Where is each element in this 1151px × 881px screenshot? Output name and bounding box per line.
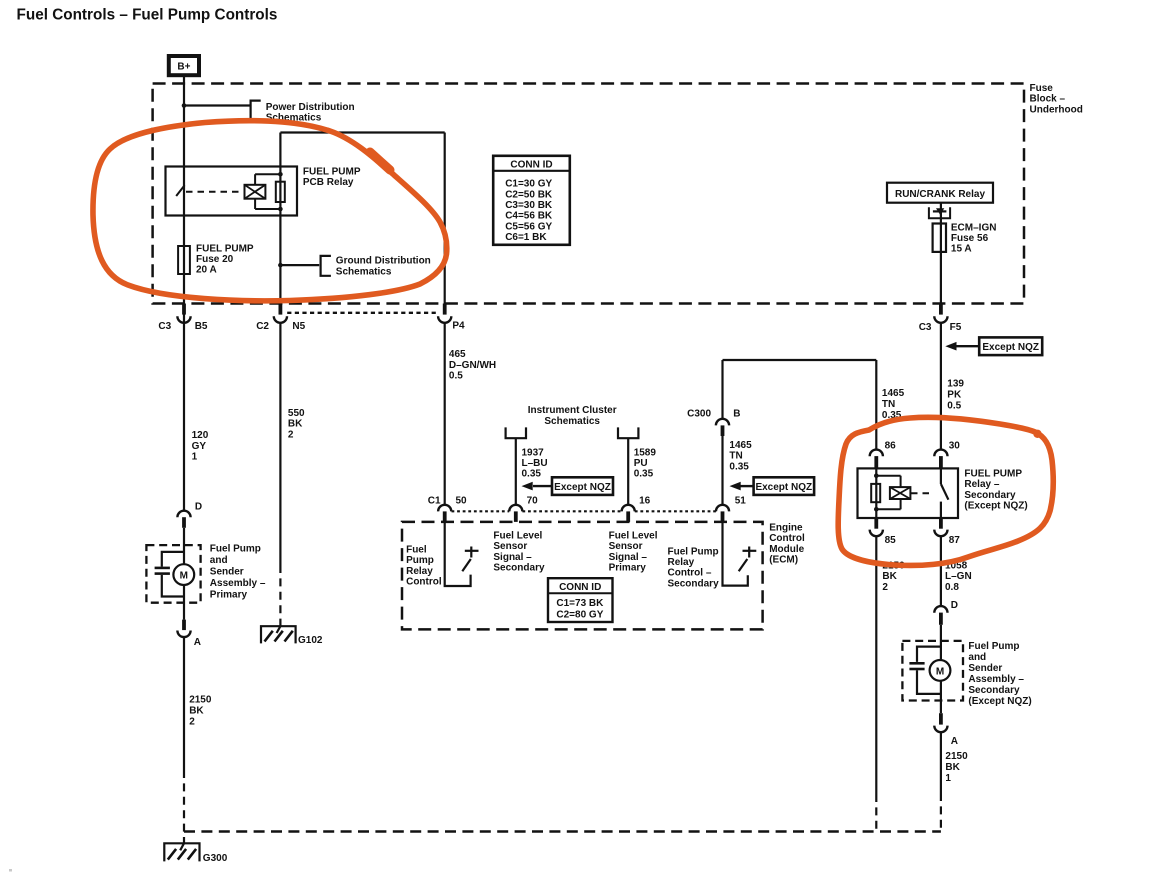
svg-text:85: 85 [885, 535, 897, 546]
svg-text:(Except NQZ): (Except NQZ) [968, 696, 1031, 707]
svg-text:BK: BK [882, 571, 897, 582]
svg-text:Fuel Level: Fuel Level [493, 530, 542, 541]
svg-text:Block –: Block – [1030, 94, 1066, 105]
svg-text:ECM–IGN: ECM–IGN [951, 223, 997, 234]
svg-text:Primary: Primary [210, 590, 248, 601]
svg-text:Signal –: Signal – [493, 552, 532, 563]
svg-text:Control: Control [406, 577, 442, 588]
svg-text:(Except NQZ): (Except NQZ) [964, 501, 1027, 512]
svg-text:1: 1 [192, 451, 198, 462]
svg-text:G300: G300 [203, 853, 228, 864]
svg-text:P4: P4 [452, 321, 465, 332]
svg-text:C5=56 GY: C5=56 GY [505, 221, 552, 232]
svg-text:Fuse: Fuse [1030, 83, 1054, 94]
svg-text:FUEL PUMP: FUEL PUMP [964, 468, 1022, 479]
svg-text:Secondary: Secondary [968, 685, 1020, 696]
svg-text:2: 2 [882, 582, 888, 593]
svg-text:Assembly –: Assembly – [210, 578, 266, 589]
svg-text:TN: TN [729, 451, 742, 462]
svg-text:A: A [194, 637, 201, 648]
svg-text:1589: 1589 [634, 447, 657, 458]
svg-text:C2=80 GY: C2=80 GY [556, 609, 603, 620]
svg-text:G102: G102 [298, 635, 323, 646]
svg-text:C2=50 BK: C2=50 BK [505, 189, 553, 200]
svg-text:PCB Relay: PCB Relay [303, 177, 354, 188]
svg-text:86: 86 [885, 440, 897, 451]
svg-text:BK: BK [945, 762, 960, 773]
svg-text:Except NQZ: Except NQZ [982, 342, 1039, 353]
svg-text:Schematics: Schematics [544, 416, 600, 427]
svg-text:0.5: 0.5 [449, 371, 463, 382]
svg-text:Pump: Pump [406, 555, 434, 566]
svg-text:B: B [733, 409, 740, 420]
svg-text:Assembly –: Assembly – [968, 674, 1024, 685]
svg-text:N5: N5 [292, 321, 305, 332]
svg-text:70: 70 [527, 496, 539, 507]
svg-text:Signal –: Signal – [609, 552, 648, 563]
svg-text:50: 50 [456, 496, 468, 507]
svg-text:BK: BK [189, 705, 204, 716]
svg-text:1465: 1465 [729, 440, 752, 451]
svg-text:51: 51 [735, 496, 747, 507]
svg-text:30: 30 [949, 440, 961, 451]
svg-text:0.8: 0.8 [945, 582, 959, 593]
svg-text:(ECM): (ECM) [769, 555, 798, 566]
svg-text:2: 2 [288, 429, 294, 440]
svg-text:Control: Control [769, 533, 805, 544]
svg-text:C1=30 GY: C1=30 GY [505, 179, 552, 190]
svg-text:PK: PK [947, 390, 962, 401]
svg-text:Sensor: Sensor [493, 541, 527, 552]
svg-text:TN: TN [882, 399, 895, 410]
svg-text:F5: F5 [950, 322, 962, 333]
svg-text:M: M [936, 666, 944, 677]
svg-text:Fuel Pump: Fuel Pump [668, 546, 719, 557]
svg-text:B5: B5 [195, 321, 208, 332]
svg-text:C3=30 BK: C3=30 BK [505, 200, 553, 211]
svg-text:0.35: 0.35 [729, 461, 749, 472]
svg-text:A: A [951, 736, 958, 747]
svg-text:Ground Distribution: Ground Distribution [336, 256, 431, 267]
svg-text:GY: GY [192, 441, 207, 452]
svg-text:Relay: Relay [406, 566, 433, 577]
svg-text:120: 120 [192, 430, 209, 441]
svg-text:139: 139 [947, 379, 964, 390]
svg-text:C3: C3 [919, 322, 932, 333]
svg-text:0.35: 0.35 [522, 469, 542, 480]
svg-text:Fuse 20: Fuse 20 [196, 254, 234, 265]
svg-text:D: D [195, 501, 202, 512]
svg-text:Secondary: Secondary [668, 578, 720, 589]
svg-text:20 A: 20 A [196, 264, 217, 275]
svg-text:Sender: Sender [210, 567, 244, 578]
svg-text:FUEL PUMP: FUEL PUMP [196, 244, 254, 255]
svg-text:C4=56 BK: C4=56 BK [505, 211, 553, 222]
svg-text:Except NQZ: Except NQZ [755, 482, 812, 493]
svg-text:Fuel Level: Fuel Level [609, 530, 658, 541]
svg-text:M: M [180, 571, 188, 582]
svg-text:0.5: 0.5 [947, 401, 961, 412]
svg-text:465: 465 [449, 349, 466, 360]
svg-text:Instrument Cluster: Instrument Cluster [528, 405, 617, 416]
svg-text:Engine: Engine [769, 522, 803, 533]
svg-text:C300: C300 [687, 409, 711, 420]
svg-text:Fuel Pump: Fuel Pump [210, 544, 261, 555]
svg-text:2150: 2150 [189, 694, 212, 705]
svg-text:87: 87 [949, 535, 961, 546]
svg-text:2: 2 [189, 716, 195, 727]
svg-text:Sensor: Sensor [609, 541, 643, 552]
svg-text:Fuel Controls – Fuel Pump Cont: Fuel Controls – Fuel Pump Controls [17, 7, 278, 24]
svg-text:Secondary: Secondary [964, 490, 1016, 501]
svg-text:and: and [968, 652, 986, 663]
svg-text:Sender: Sender [968, 663, 1002, 674]
svg-text:Except NQZ: Except NQZ [554, 482, 611, 493]
svg-text:C1=73 BK: C1=73 BK [556, 598, 604, 609]
svg-text:C3: C3 [158, 321, 171, 332]
svg-text:0.35: 0.35 [634, 469, 654, 480]
svg-text:Fuel Pump: Fuel Pump [968, 641, 1019, 652]
svg-text:Primary: Primary [609, 563, 647, 574]
svg-text:Module: Module [769, 544, 804, 555]
svg-text:PU: PU [634, 458, 648, 469]
svg-text:1465: 1465 [882, 388, 905, 399]
svg-text:Control –: Control – [668, 568, 712, 579]
svg-text:Secondary: Secondary [493, 563, 545, 574]
svg-text:Fuel: Fuel [406, 544, 427, 555]
svg-text:CONN ID: CONN ID [510, 160, 552, 171]
svg-text:16: 16 [639, 496, 651, 507]
svg-text:Schematics: Schematics [336, 266, 392, 277]
svg-text:Relay –: Relay – [964, 479, 999, 490]
svg-text:C1: C1 [428, 496, 441, 507]
svg-text:Power Distribution: Power Distribution [266, 102, 355, 113]
svg-text:15 A: 15 A [951, 243, 972, 254]
svg-text:1937: 1937 [522, 447, 545, 458]
svg-text:RUN/CRANK Relay: RUN/CRANK Relay [895, 189, 985, 200]
svg-text:L–GN: L–GN [945, 571, 972, 582]
svg-text:B+: B+ [177, 62, 190, 73]
svg-text:550: 550 [288, 408, 305, 419]
svg-text:CONN ID: CONN ID [559, 582, 601, 593]
svg-text:FUEL PUMP: FUEL PUMP [303, 166, 361, 177]
svg-text:and: and [210, 555, 228, 566]
svg-text:D–GN/WH: D–GN/WH [449, 360, 496, 371]
svg-text:L–BU: L–BU [522, 458, 548, 469]
svg-text:Relay: Relay [668, 557, 695, 568]
svg-text:D: D [951, 600, 958, 611]
svg-text:C6=1 BK: C6=1 BK [505, 232, 547, 243]
svg-text:1: 1 [945, 773, 951, 784]
svg-text:2150: 2150 [945, 751, 968, 762]
svg-text:BK: BK [288, 419, 303, 430]
svg-text:Underhood: Underhood [1030, 104, 1083, 115]
svg-text:C2: C2 [256, 321, 269, 332]
